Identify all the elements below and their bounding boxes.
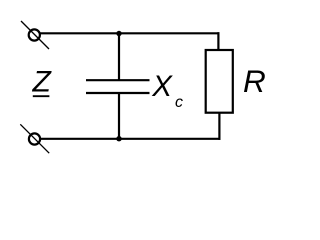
svg-text:R: R: [243, 63, 266, 99]
wire (resistor bottom lead): [218, 113, 220, 140]
label underline of Z: [33, 95, 50, 97]
svg-text:c: c: [175, 94, 183, 111]
wire (capacitor top lead): [118, 33, 120, 80]
terminal T1 (top input terminal): [21, 21, 49, 49]
capacitor Xc (bottom plate): [86, 92, 150, 94]
svg-text:Z: Z: [32, 66, 53, 99]
node (junction dot on top rail): [116, 31, 121, 36]
wire (bottom rail from T2 to resistor lead): [41, 138, 221, 140]
node (junction dot on bottom rail): [116, 136, 121, 141]
svg-text:X: X: [151, 70, 173, 103]
wire (top rail from T1 to resistor lead): [41, 32, 220, 34]
resistor R (body): [206, 50, 233, 113]
capacitor Xc (top plate): [86, 79, 150, 81]
terminal T2 (bottom input terminal): [20, 124, 49, 153]
wire (capacitor bottom lead): [118, 93, 120, 139]
wire (resistor top lead): [217, 32, 219, 50]
